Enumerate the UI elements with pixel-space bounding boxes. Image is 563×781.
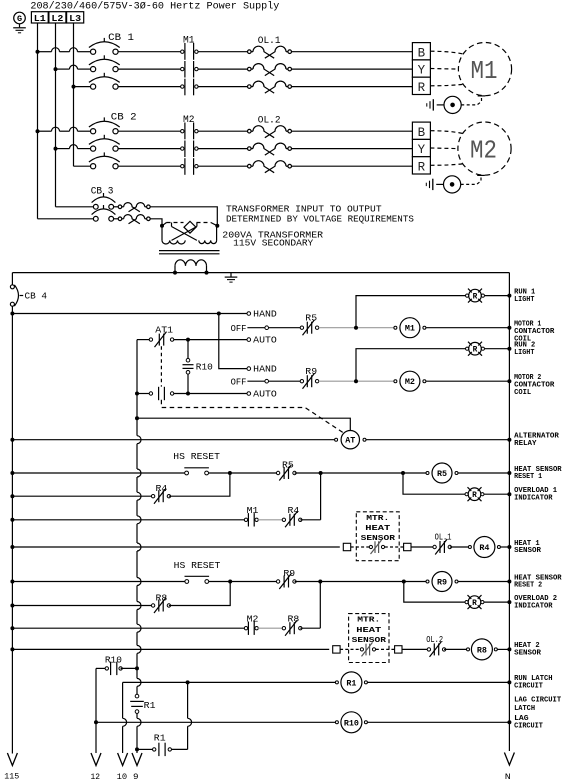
wire: button to R9 contact (209, 581, 279, 583)
wire: M1 to overload OL.1 (198, 86, 247, 88)
fuse A (primary) (122, 206, 124, 208)
terminal box L2 (49, 12, 66, 23)
pilot light R (run 1) (469, 289, 482, 302)
node: reset 1 branch (228, 471, 232, 475)
svg-text:N: N (505, 773, 511, 781)
svg-text:CONTACTOR: CONTACTOR (514, 328, 555, 336)
svg-text:R: R (472, 600, 477, 608)
node: R10 branch bottom (186, 392, 190, 396)
motor 2 terminal box Y (412, 139, 430, 156)
svg-text:OL.2: OL.2 (258, 115, 281, 126)
transformer T1 primary (160, 224, 164, 228)
motor M2 lead R (430, 164, 462, 166)
svg-text:CB 3: CB 3 (91, 186, 114, 198)
wire: M2 coil to rail (426, 380, 509, 382)
node: overload 2 branch (402, 580, 406, 584)
motor M1 lead R (430, 84, 463, 86)
wire: overload 1 light to rail (484, 493, 509, 495)
svg-text:B: B (418, 46, 426, 60)
svg-text:LIGHT: LIGHT (514, 296, 535, 304)
svg-text:MTR.: MTR. (357, 617, 380, 625)
svg-text:M2: M2 (405, 377, 415, 387)
circuit breaker CB 2 pole C (89, 156, 120, 162)
circuit breaker CB 3 pole A (92, 197, 116, 203)
motor M2 lead Y (430, 147, 458, 150)
wire: OL.1 aux to R4 coil (450, 546, 470, 548)
svg-text:R: R (473, 293, 478, 301)
node: AT rung at rail (507, 438, 511, 442)
wire: L3 corner into CB2 pole C (74, 165, 91, 167)
svg-text:B: B (418, 126, 426, 140)
coil AT (alternator relay) (341, 431, 359, 449)
node: L2 tap for CB1 pole B (54, 67, 58, 71)
contact R10 (lag select, vertical) (187, 340, 189, 359)
svg-text:CB 1: CB 1 (108, 32, 134, 44)
transformer T1 secondary (174, 266, 176, 273)
circuit breaker CB 2 pole B (89, 139, 120, 145)
wire: M1 to overload OL.1 (198, 51, 247, 53)
wire: rail to heat sensor 2 (12, 648, 329, 650)
motor 2 terminal box R (412, 157, 430, 174)
wire: v4 leg (187, 682, 189, 718)
svg-text:R: R (473, 347, 478, 355)
arrow: neutral N (504, 753, 514, 766)
svg-text:L2: L2 (51, 14, 63, 24)
svg-text:9: 9 (133, 773, 139, 781)
dashed mechanical link AT1 (160, 346, 162, 386)
node: M1-R4 branch top (319, 471, 323, 475)
wire: rail to M2 contact (12, 627, 245, 629)
terminal square heat 1 left (343, 543, 350, 550)
node: overload 1 rung at rail (507, 492, 511, 496)
wire: M1 coil to rail (426, 327, 509, 329)
wire: v2 leg to arrow 10 (122, 682, 124, 718)
wire: AT1 to AUTO 1 terminal (174, 339, 247, 341)
motor M2 lead B (430, 131, 462, 134)
overload heater OL.1 phase C (251, 86, 253, 88)
svg-text:115V SECONDARY: 115V SECONDARY (233, 238, 313, 249)
svg-text:L1: L1 (34, 14, 46, 24)
svg-text:LAG CIRCUIT: LAG CIRCUIT (514, 696, 562, 704)
svg-text:R: R (418, 160, 426, 174)
node: M1 rung at rail (507, 326, 511, 330)
terminal: HAND 1 (247, 312, 251, 316)
svg-text:L3: L3 (69, 14, 81, 24)
wire: auto feed vertical (136, 340, 138, 436)
wire: riser to RUN 1 light (356, 296, 467, 328)
wire: M2 to overload OL.2 (198, 148, 247, 150)
svg-text:SENSOR: SENSOR (514, 650, 542, 658)
node: overload 1 branch (401, 471, 405, 475)
svg-text:RELAY: RELAY (514, 440, 537, 448)
node: reset 2 branch (228, 580, 232, 584)
wire: R8 to reset 2 branch (169, 582, 230, 606)
node: rail tap heat 2 rung (10, 647, 14, 651)
overload heater OL.2 phase A (251, 130, 253, 132)
wire: L2 corner into CB3 pole A (56, 206, 94, 208)
svg-text:OFF: OFF (231, 323, 247, 334)
wire: R1b rung left (137, 748, 152, 750)
node: secondary left on rail (173, 271, 177, 275)
svg-text:CIRCUIT: CIRCUIT (514, 723, 543, 731)
node: v3 R1b tap (135, 747, 139, 751)
svg-text:R1: R1 (144, 700, 156, 711)
motor M1 ground brush (444, 96, 461, 113)
svg-text:INDICATOR: INDICATOR (514, 494, 553, 502)
svg-text:OL.1: OL.1 (258, 36, 281, 47)
wire: to OL.1 aux contact (411, 546, 433, 548)
wire: CB1 to contactor M1 (118, 86, 181, 88)
terminal box L3 (67, 12, 84, 23)
svg-text:COIL: COIL (514, 389, 531, 397)
node: rail tap HAND feed (10, 312, 14, 316)
motor M1 lead B (430, 51, 463, 54)
node: R10 rung at rail (507, 720, 511, 724)
node: L1 tap for CB1 pole A (36, 50, 40, 54)
wire: OL.1 to motor terminal box (292, 51, 413, 53)
terminal square heat 1 right (404, 543, 411, 550)
wire: top control rail (12, 272, 509, 274)
node: v1 lag rung tap (94, 720, 98, 724)
wire: M2 to overload OL.2 (198, 130, 247, 132)
terminal square heat 2 right (395, 646, 402, 653)
svg-text:R5: R5 (437, 469, 447, 479)
wire: R9 contact to R9 coil (295, 581, 428, 583)
node: rail tap heat 1 rung (10, 545, 14, 549)
svg-text:R5: R5 (305, 312, 317, 323)
terminal: AUTO 1 (247, 338, 251, 342)
dashed box MTR HEAT SENSOR 2 (349, 614, 389, 663)
contact heat sensor 2 NC (340, 648, 360, 650)
circuit breaker CB 1 pole B (89, 59, 120, 65)
wire: R10 contact to auto vertical (121, 667, 137, 669)
node: rail tap alternator rung (10, 438, 14, 442)
wire: L2 vertical feeder (55, 23, 57, 207)
wire: R5 contact to R5 coil (295, 472, 428, 474)
wire: R1b rung right (172, 748, 188, 750)
svg-text:AT: AT (345, 436, 355, 446)
terminal square heat 2 left (333, 646, 340, 653)
motor M2 circle (458, 122, 511, 175)
svg-text:R8: R8 (477, 645, 487, 655)
wire: overload 1 indicator branch (403, 473, 466, 494)
wire: HAND riser to HAND 2 (219, 314, 247, 369)
svg-text:R1: R1 (154, 733, 166, 744)
node: R10 branch top (186, 338, 190, 342)
node: HS2 rung at rail (507, 580, 511, 584)
motor M1 lead Y (430, 68, 458, 71)
wire: lag circuit rung (96, 721, 337, 723)
wire: M2 to R8 contact (gray) (258, 627, 284, 629)
svg-text:SENSOR: SENSOR (514, 547, 542, 555)
wire: R8 to branch riser (300, 627, 320, 629)
wire: riser to RUN 2 light (356, 349, 467, 382)
node: rail tap M2-R8 rung (10, 626, 14, 630)
svg-text:HAND: HAND (253, 364, 277, 375)
fuse B (primary) (122, 218, 124, 220)
node: rail tap M1-R4 rung (10, 518, 14, 522)
coil R1 (run latch) (341, 672, 362, 693)
circuit breaker CB 1 pole C (89, 77, 120, 83)
svg-text:R10: R10 (196, 361, 213, 372)
circuit breaker CB 2 pole A (89, 121, 120, 127)
svg-text:R: R (472, 492, 477, 500)
wire: M1 to R4 contact (gray) (258, 519, 284, 521)
node: run 2 rung at rail (507, 347, 511, 351)
wire: R9 coil to rail (458, 581, 509, 583)
wire: R4 to branch riser (300, 519, 320, 521)
svg-text:LATCH: LATCH (514, 705, 535, 713)
motor 1 terminal box R (412, 77, 430, 94)
svg-text:R9: R9 (305, 366, 317, 377)
svg-text:R4: R4 (479, 543, 489, 553)
svg-text:INDICATOR: INDICATOR (514, 602, 553, 610)
wire: overload 2 light to rail (484, 601, 509, 603)
arrow: line 12 (91, 753, 101, 766)
svg-text:HAND: HAND (253, 309, 277, 320)
motor M1 circle (458, 43, 511, 96)
motor 1 terminal box B (412, 43, 430, 60)
wire: R8 coil to rail (498, 648, 510, 650)
wire: CB1 to contactor M1 (118, 51, 181, 53)
wire: R4 coil to rail (501, 546, 510, 548)
terminal: AUTO 2 (247, 392, 251, 396)
wire: OL.2 to motor terminal box (292, 130, 413, 132)
wire: left control rail (11, 306, 13, 753)
wire: rail to HS RESET 2 button (12, 581, 184, 583)
motor M2 brush lead (461, 175, 481, 184)
node: auto 2 feed (135, 392, 139, 396)
svg-text:115: 115 (4, 772, 19, 781)
wire: branch to AT coil top (137, 418, 350, 430)
node: run 1 rung at rail (507, 294, 511, 298)
wire: R5 coil to rail (458, 472, 509, 474)
wire: run 1 light to rail (485, 295, 510, 297)
node: auto vertical bottom (135, 666, 139, 670)
wire: CB2 to contactor M2 (118, 165, 181, 167)
arrow: line 9 (132, 753, 142, 766)
wire: R10 coil to rail (368, 721, 510, 723)
svg-text:R10: R10 (105, 654, 122, 665)
svg-text:R9: R9 (283, 568, 295, 579)
wire: M1-R4 branch riser (320, 473, 322, 520)
wire: L3 to CB1 pole C (74, 86, 91, 88)
wire: v1 leg to arrow 12 (95, 668, 97, 753)
node: run light 2 tap (354, 379, 358, 383)
svg-text:AUTO: AUTO (253, 389, 277, 400)
svg-text:CB 2: CB 2 (111, 112, 137, 124)
wire: M2 to overload OL.2 (198, 165, 247, 167)
wire: R9 to M2 coil (gray) (319, 380, 396, 382)
svg-text:HS RESET: HS RESET (173, 451, 220, 462)
circuit breaker CB 1 pole A (89, 42, 120, 48)
motor 1 terminal box Y (412, 60, 430, 77)
svg-text:DETERMINED BY VOLTAGE REQUIREM: DETERMINED BY VOLTAGE REQUIREMENTS (226, 213, 414, 224)
node: HS1 rung at rail (507, 471, 511, 475)
wire: rail to AT coil (12, 439, 336, 441)
contactor M1 contacts (184, 43, 186, 60)
overload heater OL.1 phase A (251, 51, 253, 53)
wire: rail to R8 contact (12, 605, 153, 607)
pilot light R (overload 1) (468, 488, 481, 501)
contact AT1 NO (alternate) (137, 393, 149, 395)
svg-text:CB 4: CB 4 (25, 291, 48, 302)
svg-text:HS RESET: HS RESET (174, 560, 221, 571)
overload heater OL.2 phase C (251, 165, 253, 167)
motor 2 terminal box B (412, 122, 430, 139)
contactor M2 contacts (184, 123, 186, 140)
node: L2 tap for CB2 pole B (54, 147, 58, 151)
wire: R5 to M1 coil (gray) (319, 327, 396, 329)
wire: run 2 light to rail (485, 348, 510, 350)
wire: fuse A to transformer right (150, 207, 217, 226)
svg-text:M2: M2 (470, 136, 497, 166)
circuit breaker CB 4 (11, 273, 13, 285)
ground terminal G (14, 12, 26, 24)
node: M2 rung at rail (507, 379, 511, 383)
wire: v3 through lag rung (137, 718, 141, 726)
coil R8 (heat 2 sensor) (471, 639, 492, 660)
dashed box MTR HEAT SENSOR 1 (356, 512, 399, 561)
wire: L1 to CB1 pole A (hops L2 L3) (38, 51, 52, 53)
node: HAND riser tap (217, 312, 221, 316)
wire: run latch rung (123, 681, 337, 683)
coil R9 (heat sensor reset 2) (432, 572, 452, 592)
node: M2-R8 branch top (318, 580, 322, 584)
arrow: line 115 (7, 753, 17, 766)
node: L1 tap for CB2 pole A (36, 129, 40, 133)
svg-text:OFF: OFF (231, 376, 247, 387)
wire: OL.2 to motor terminal box (292, 165, 413, 167)
svg-text:Y: Y (418, 64, 426, 78)
node: L3 tap for CB1 pole C (72, 85, 76, 89)
wire: AT coil to rail (366, 439, 509, 441)
wire: CB3 pole A to fuse A (114, 206, 119, 208)
wire: L3 vertical feeder (73, 23, 75, 166)
wire: L2 to CB2 pole B (hops L3) (56, 148, 70, 150)
wire: R4 to reset 1 branch (169, 473, 230, 496)
svg-text:CIRCUIT: CIRCUIT (514, 683, 543, 691)
svg-text:RESET 1: RESET 1 (514, 473, 543, 481)
wire: rail to R4 contact (12, 495, 153, 497)
terminal: HAND 2 (247, 367, 251, 371)
node: R1 rung at rail (507, 680, 511, 684)
node: run light 1 tap (354, 326, 358, 330)
wire: rail to HAND 1 terminal (12, 313, 247, 315)
motor M2 ground brush (444, 176, 461, 193)
node: v4 tap (186, 680, 190, 684)
svg-text:Y: Y (418, 143, 426, 157)
svg-text:R10: R10 (344, 718, 359, 728)
pilot light R (overload 2) (468, 596, 481, 609)
wire: CB1 to contactor M1 (118, 68, 181, 70)
svg-text:10: 10 (117, 773, 128, 781)
coil R4 (heat 1 sensor) (474, 537, 495, 558)
wire: button to R5 contact (209, 472, 279, 474)
svg-text:HEAT: HEAT (356, 627, 382, 635)
wire: right control rail (508, 273, 510, 751)
svg-text:R: R (418, 81, 426, 95)
wire: OL.1 to motor terminal box (292, 68, 413, 70)
svg-text:MTR.: MTR. (366, 515, 389, 523)
node: secondary right on rail (205, 271, 209, 275)
ground on control rail (230, 273, 232, 277)
overload heater OL.1 phase B (251, 68, 253, 70)
wire: CB2 to contactor M2 (118, 148, 181, 150)
wire: CB3 pole B to fuse B (114, 218, 119, 220)
wire: M2-R8 branch riser (319, 582, 321, 629)
node: heat 2 rung at rail (507, 647, 511, 651)
wire: L1 to CB2 pole A (hops L2 L3) (38, 130, 52, 132)
node: rail tap HS reset 1 (10, 471, 14, 475)
svg-text:12: 12 (91, 773, 101, 781)
wire: AT1 NO to AUTO 2 terminal (174, 393, 247, 395)
circuit breaker CB 3 pole B (92, 209, 116, 215)
coil R5 (heat sensor reset 1) (432, 463, 452, 483)
wire: OL.1 to motor terminal box (292, 86, 413, 88)
svg-text:AUTO: AUTO (253, 335, 277, 346)
wire: L1 vertical feeder (37, 23, 39, 219)
wire: L2 to CB1 pole B (hops L3) (56, 68, 70, 70)
svg-text:HEAT: HEAT (365, 525, 391, 533)
overload heater OL.2 phase B (251, 148, 253, 150)
wire: R1 coil to rail (368, 681, 510, 683)
wire: OL.2 aux to R8 coil (444, 648, 468, 650)
coil M2 (motor 2 contactor) (400, 371, 420, 391)
dashed link to alternator relay (161, 400, 344, 433)
wire: L1 corner into CB3 pole B (38, 218, 94, 220)
node: overload 2 rung at rail (507, 600, 511, 604)
svg-text:LIGHT: LIGHT (514, 349, 535, 357)
coil M1 (motor 1 contactor) (400, 318, 420, 338)
transformer T1 core (159, 250, 220, 252)
coil R10 (lag circuit) (341, 712, 362, 733)
wire: OL.2 to motor terminal box (292, 148, 413, 150)
svg-text:G: G (17, 14, 22, 24)
motor M1 brush lead (461, 96, 481, 105)
pilot light R (run 2) (469, 342, 482, 355)
wire: CB2 to contactor M2 (118, 130, 181, 132)
wire: rail to heat sensor 1 (12, 546, 339, 548)
contact R1 (latch, vertical) (136, 668, 138, 678)
svg-text:M1: M1 (471, 56, 498, 86)
node: rail tap R4 rung (10, 494, 14, 498)
node: rail tap R8 rung (10, 604, 14, 608)
contact heat sensor 1 NC (351, 546, 369, 548)
wire: overload 2 indicator branch (404, 582, 467, 603)
arrow: line 10 (118, 753, 128, 766)
wire: to OL.2 aux contact (402, 648, 427, 650)
svg-text:R9: R9 (437, 578, 447, 588)
svg-text:R8: R8 (288, 613, 300, 624)
wire: fuse B to transformer left (150, 219, 162, 226)
wire: M1 to overload OL.1 (198, 68, 247, 70)
svg-text:OL.1: OL.1 (435, 531, 452, 542)
node: rail tap HS reset 2 (10, 580, 14, 584)
wire: rail to HS RESET 1 button (12, 472, 184, 474)
svg-text:CONTACTOR: CONTACTOR (514, 381, 555, 389)
svg-text:RESET 2: RESET 2 (514, 582, 542, 590)
svg-text:R1: R1 (346, 678, 356, 688)
svg-text:208/230/460/575V-3Ø-60 Hertz P: 208/230/460/575V-3Ø-60 Hertz Power Suppl… (30, 1, 279, 13)
wire: rail to M1 contact (12, 519, 245, 521)
terminal box L1 (31, 12, 48, 23)
node: AT coil top tap (135, 416, 139, 420)
svg-text:M1: M1 (405, 324, 415, 334)
node: heat 1 rung at rail (507, 545, 511, 549)
